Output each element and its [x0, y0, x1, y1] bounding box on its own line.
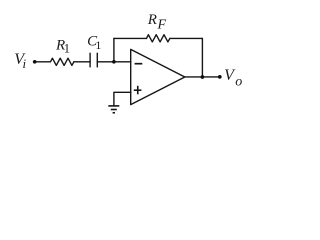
svg-text:1: 1: [64, 42, 70, 56]
svg-text:F: F: [157, 17, 167, 32]
svg-text:R: R: [147, 12, 157, 28]
svg-text:o: o: [235, 74, 242, 89]
svg-text:i: i: [23, 56, 27, 71]
svg-text:1: 1: [95, 38, 101, 52]
